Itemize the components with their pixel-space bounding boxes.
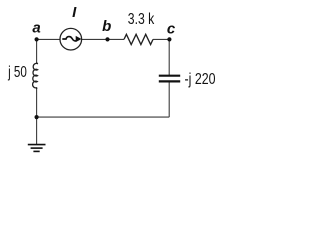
svg-text:a: a (32, 19, 40, 36)
current source I (AC) circle (60, 28, 82, 50)
svg-text:b: b (102, 18, 111, 35)
wire: right vertical, node c down to capacitor (168, 39, 170, 75)
svg-text:3.3 k: 3.3 k (128, 11, 155, 28)
inductor j 50 coil (33, 62, 38, 89)
wire: top rail node a to current source (37, 38, 61, 40)
wire: inductor down to bottom junction (36, 89, 38, 118)
node c junction dot (167, 37, 171, 41)
node a junction dot (35, 37, 39, 41)
wire: junction down to ground (36, 117, 38, 144)
wire: current source to node b to resistor (82, 38, 124, 40)
wire: left vertical, node a down to inductor (36, 39, 38, 62)
ground: bar 2 (31, 147, 43, 149)
svg-text:-j 220: -j 220 (185, 71, 216, 88)
bottom junction dot (35, 115, 39, 119)
node b junction dot (105, 37, 109, 41)
wire: bottom rail (37, 116, 170, 118)
capacitor -j 220 top plate (159, 75, 180, 77)
svg-text:j 50: j 50 (7, 64, 27, 81)
wire: resistor to node c (153, 38, 169, 40)
ground: bar 1 (28, 144, 46, 146)
resistor 3.3 k zigzag (124, 34, 153, 44)
svg-text:c: c (167, 21, 176, 38)
ground: bar 3 (33, 150, 39, 152)
current source arrowhead (76, 36, 82, 42)
wire: capacitor down to bottom rail corner (168, 82, 170, 117)
current source arrow (wavy shaft) (62, 37, 77, 41)
svg-text:I: I (72, 4, 77, 21)
capacitor -j 220 bottom plate (159, 80, 180, 82)
